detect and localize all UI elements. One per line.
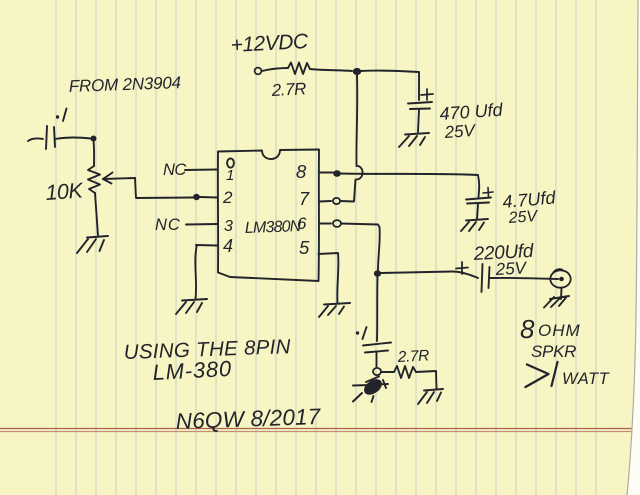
- svg-text:NC: NC: [163, 161, 186, 179]
- label .1 (C1 value): [56, 109, 67, 122]
- ground: C3: [461, 219, 488, 231]
- wire: NC to pin 1: [185, 169, 217, 172]
- wire: speaker to ground: [560, 288, 563, 300]
- capacitor C3 4.7uF: [466, 198, 491, 220]
- svg-text:5: 5: [299, 237, 310, 258]
- svg-text:4: 4: [223, 236, 233, 256]
- label 8 OHM: [520, 314, 581, 344]
- wire: pot wiper to IC pin 2: [135, 178, 193, 198]
- svg-text:25V: 25V: [507, 208, 539, 227]
- wire: NC to pin 3: [186, 223, 217, 226]
- svg-text:2.7R: 2.7R: [396, 347, 429, 366]
- terminal circle: bottom node: [373, 368, 381, 375]
- svg-text:25V: 25V: [494, 258, 528, 279]
- svg-text:8: 8: [520, 314, 535, 344]
- IC U1 LM380N body: [218, 150, 319, 282]
- svg-text:FROM 2N3904: FROM 2N3904: [68, 73, 181, 96]
- capacitor C5 0.1uF: [363, 343, 391, 353]
- resistor R2 2.7R: [288, 63, 310, 75]
- junction: output node: [374, 270, 381, 277]
- junction: input node: [91, 136, 97, 142]
- ground: pin 4: [176, 299, 207, 314]
- terminal circle: pin 7 node: [333, 198, 340, 204]
- wire: node down to potentiometer: [93, 141, 96, 166]
- junction: supply node: [353, 68, 361, 75]
- wire: terminal to R2: [262, 68, 288, 71]
- wire: junction into pin 2: [200, 196, 217, 199]
- wire: pin 7 from IC: [319, 200, 331, 203]
- capacitor C1 0.1uF input coupling: [46, 126, 55, 149]
- svg-text:NC: NC: [155, 216, 181, 234]
- wire: pin 4 to ground: [195, 245, 217, 299]
- wire: pin 7 circle to supply drop: [340, 200, 354, 203]
- scribble: inked-out blob: [353, 376, 388, 402]
- svg-text:2: 2: [222, 188, 233, 207]
- label + (C4 polarity): [456, 262, 468, 274]
- svg-text:10K: 10K: [45, 178, 85, 205]
- label + (C2 polarity): [421, 89, 433, 100]
- svg-text:8: 8: [296, 161, 307, 182]
- wire: supply junction to C2: [361, 71, 419, 100]
- wire: audio input from 2N3904 stage: [28, 138, 43, 141]
- svg-text:7: 7: [299, 189, 310, 209]
- wire: C4 to speaker: [490, 278, 558, 279]
- junction: pin 8 node: [333, 170, 341, 177]
- ground: pin 5: [319, 303, 350, 317]
- label greater-than 1 WATT: [526, 362, 611, 388]
- resistor R3 2.7R: [394, 366, 416, 378]
- wire: output node down to C5: [376, 277, 379, 341]
- svg-text:1: 1: [226, 167, 234, 184]
- wire: R3 to ground: [416, 371, 437, 389]
- IC pin 1 indicator: [227, 158, 234, 167]
- ground: R3: [418, 389, 443, 404]
- svg-text:2.7R: 2.7R: [270, 79, 306, 100]
- wire: pin 8 node to C3: [341, 174, 479, 198]
- svg-text:LM-380: LM-380: [152, 356, 233, 385]
- wire: supply node down to pin 7 with hop over pin 8 wire: [354, 75, 363, 201]
- svg-text:LM380N: LM380N: [245, 218, 302, 237]
- wire: node circle to R3: [381, 371, 394, 373]
- svg-text:3: 3: [224, 218, 233, 235]
- ground: speaker: [544, 296, 569, 308]
- potentiometer R1 10K: [88, 166, 135, 193]
- junction: pin 2 node: [193, 194, 200, 200]
- terminal: +12VDC input: [255, 68, 262, 75]
- ground: potentiometer: [77, 236, 108, 253]
- label .1 (C5 value): [356, 327, 367, 339]
- wire: pin 6 from IC: [319, 223, 331, 225]
- terminal circle: pin 6 node: [333, 220, 341, 227]
- wire: pot bottom to ground: [95, 193, 98, 236]
- wire: pin 5 to ground: [319, 253, 339, 303]
- svg-text:25V: 25V: [443, 121, 477, 142]
- wire: pin 8 from IC: [319, 172, 333, 174]
- svg-text:N6QW 8/2017: N6QW 8/2017: [175, 404, 322, 434]
- wire: R2 to supply junction: [310, 69, 352, 71]
- svg-text:OHM: OHM: [538, 321, 581, 340]
- label + (C3 polarity): [483, 188, 493, 198]
- svg-text:WATT: WATT: [562, 370, 611, 388]
- svg-text:+12VDC: +12VDC: [230, 30, 309, 57]
- wire: C5 to bottom node circle: [376, 353, 378, 367]
- capacitor C2 470uF: [408, 102, 432, 132]
- ground: C2: [399, 133, 429, 147]
- wire: pin 6 to output node: [341, 224, 380, 271]
- svg-text:SPKR: SPKR: [531, 342, 576, 361]
- wire: output node to C4: [381, 272, 478, 279]
- wire: C1 to pot top node: [55, 137, 91, 139]
- capacitor C4 220uF: [482, 264, 490, 292]
- speaker jack LS1: [550, 269, 570, 288]
